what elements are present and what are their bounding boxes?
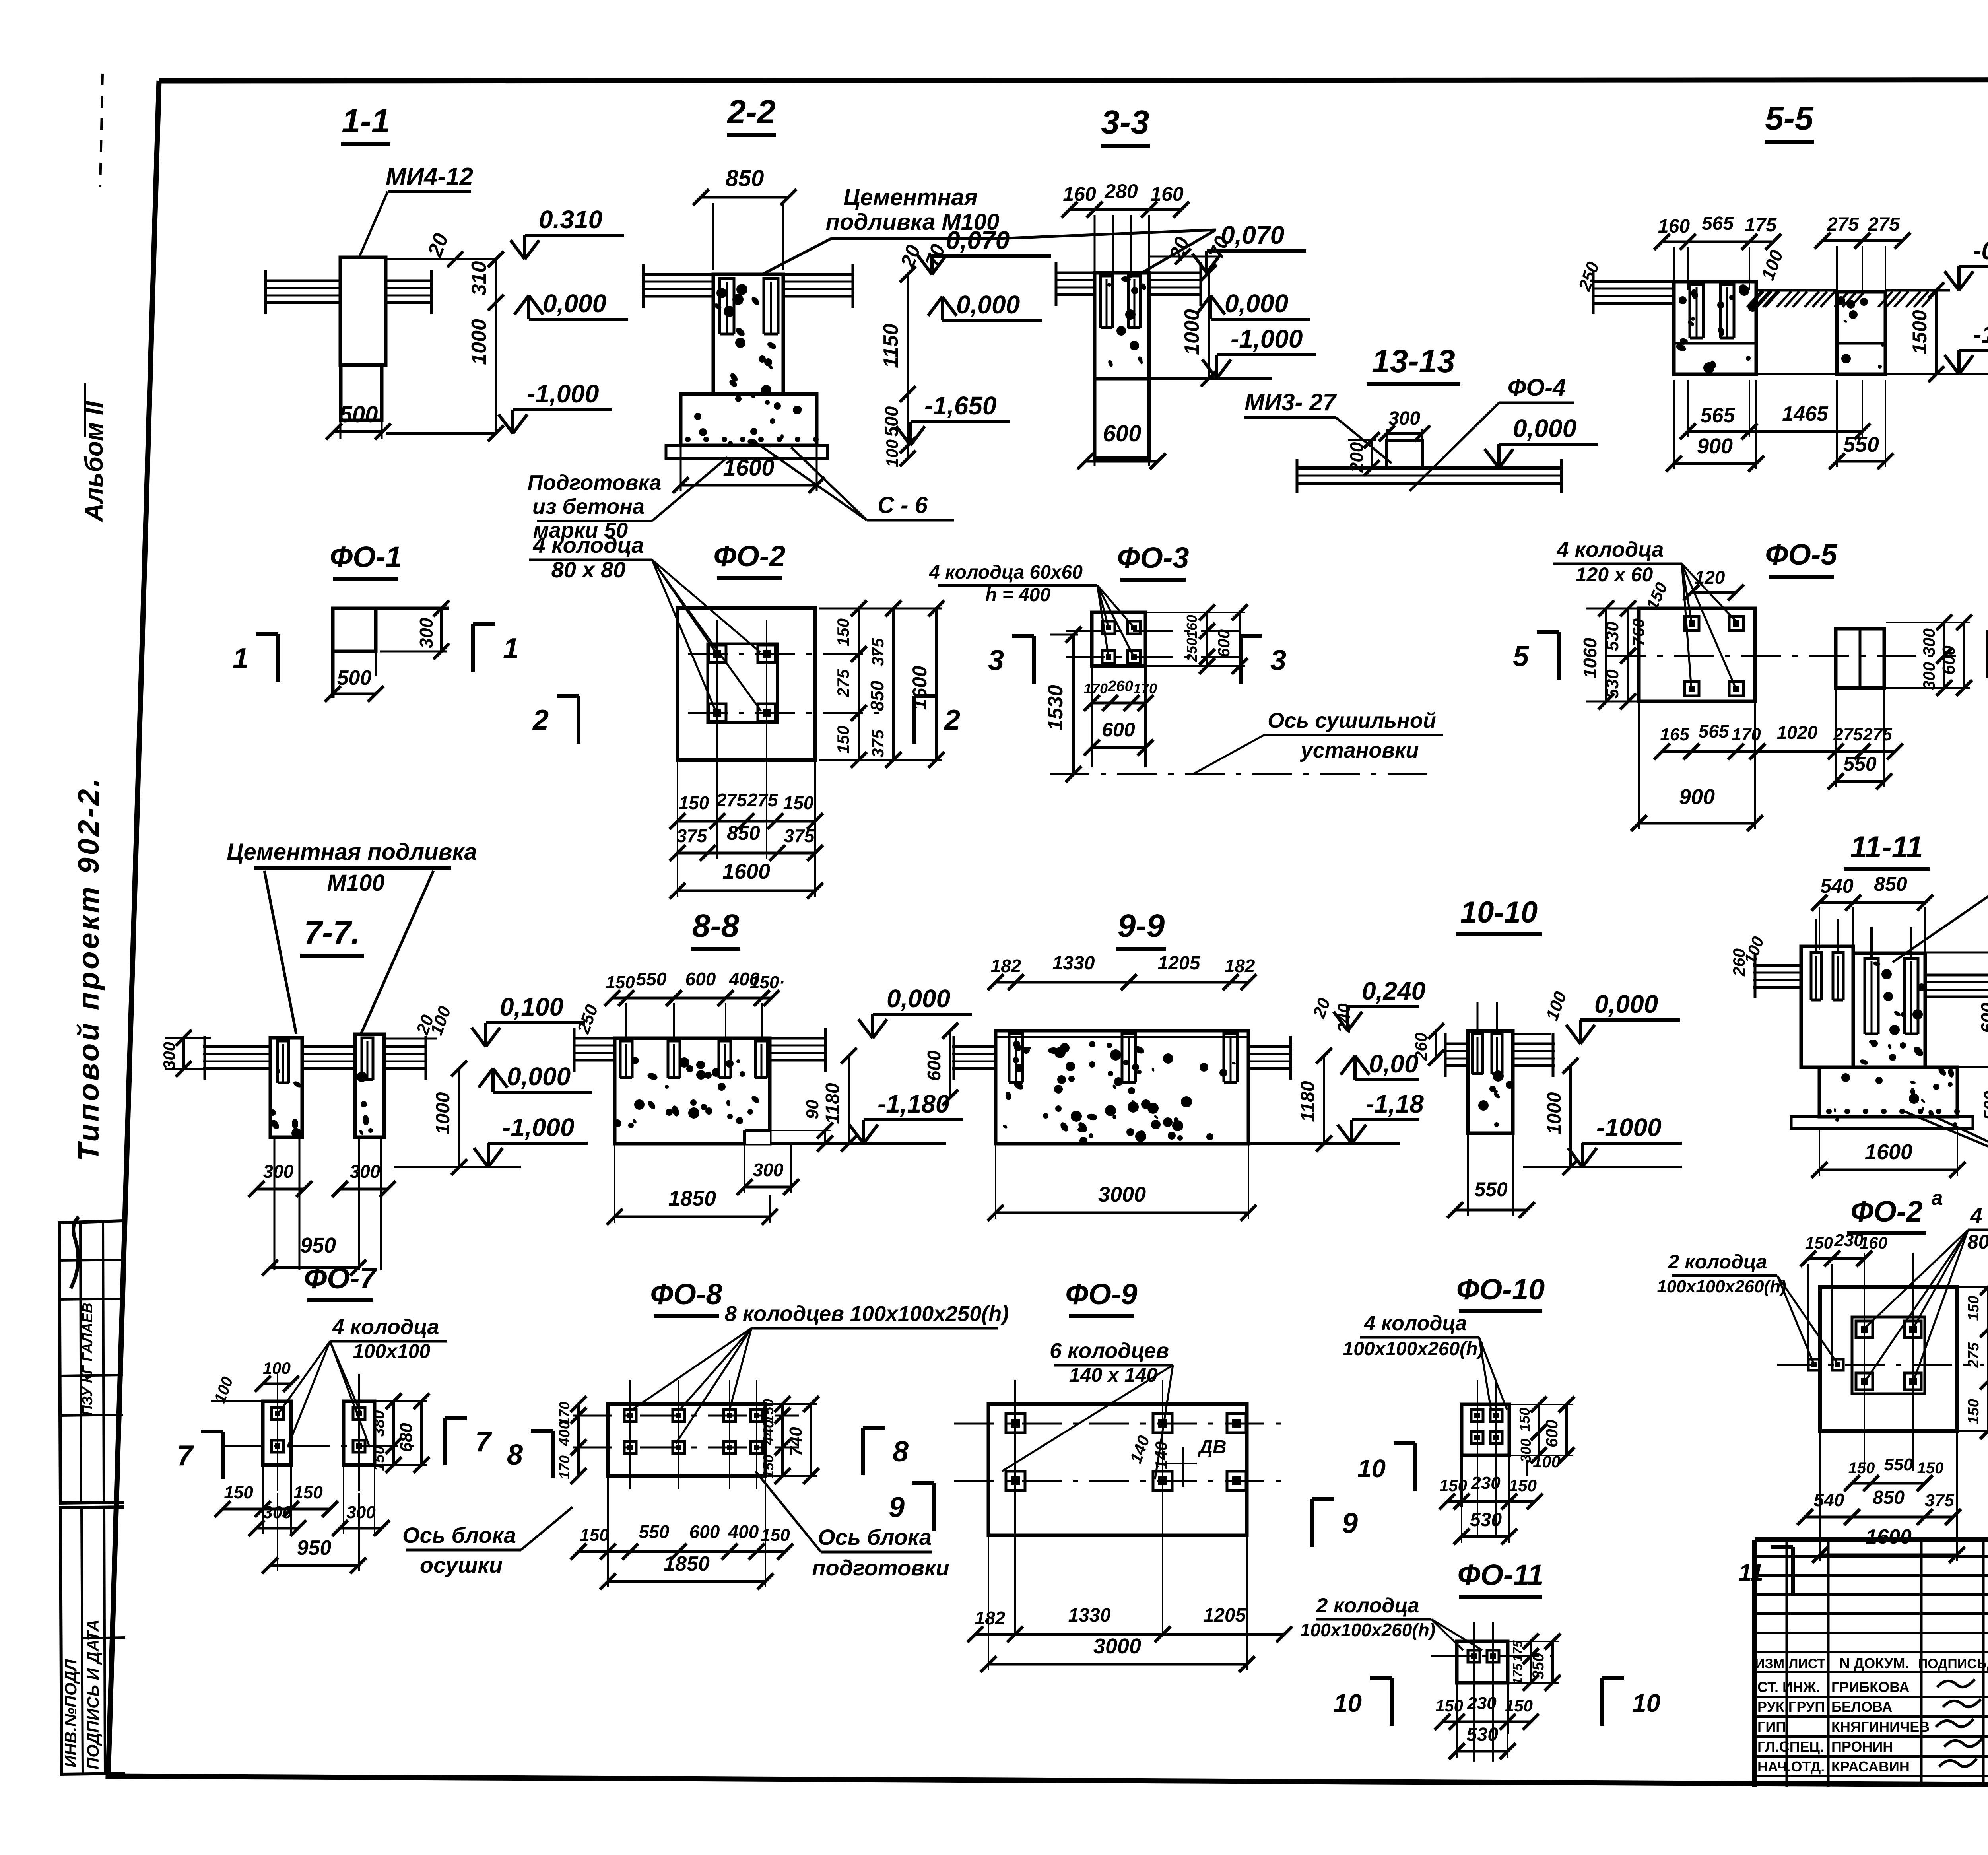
13-13 label FO-4: [1409, 374, 1574, 491]
8-8 bottom line: [770, 1142, 946, 1145]
7-7 level 0,100: [472, 993, 585, 1047]
3-3 floor slab: [1055, 262, 1202, 306]
svg-text:Цементная: Цементная: [843, 185, 978, 210]
9-9 dim 3000: [988, 1145, 1256, 1221]
svg-text:3: 3: [988, 645, 1004, 676]
2-2 level 0,000: [928, 290, 1042, 320]
svg-text:1000: 1000: [468, 319, 491, 365]
svg-text:550: 550: [1843, 753, 1877, 775]
7-7 left dim 300: [160, 1030, 223, 1077]
5-5 dim 100: [1757, 247, 1787, 283]
5-5 top dims right: [1815, 214, 1910, 293]
svg-text:ФО-5: ФО-5: [1765, 538, 1838, 571]
svg-text:1205: 1205: [1158, 953, 1201, 974]
FO-10 axis: [1477, 1380, 1496, 1535]
svg-text:160: 160: [1150, 183, 1184, 205]
svg-text:ФО-3: ФО-3: [1117, 541, 1189, 574]
svg-text:ПРОНИН: ПРОНИН: [1831, 1738, 1893, 1755]
svg-text:Альбом II: Альбом II: [80, 400, 108, 523]
svg-text:310: 310: [468, 261, 491, 296]
svg-text:1: 1: [233, 643, 248, 674]
svg-text:ПОДПИСЬ: ПОДПИСЬ: [1918, 1656, 1987, 1671]
svg-text:ПЗУ КГ ГАЛАЕВ: ПЗУ КГ ГАЛАЕВ: [79, 1303, 95, 1416]
FO-11 secmark 10 right: [1602, 1678, 1660, 1726]
2-2 label cement grout: [761, 185, 1216, 275]
svg-text:740: 740: [786, 1427, 806, 1456]
3-3 pier speckle: [1107, 276, 1147, 367]
svg-text:4 колодца: 4 колодца: [1970, 1204, 1988, 1228]
FO-5 secmark 5 left: [1513, 632, 1559, 680]
svg-text:275: 275: [1965, 1342, 1982, 1368]
11-11 dim 70: [1925, 923, 1988, 960]
svg-text:600: 600: [1542, 1420, 1561, 1447]
svg-text:1000: 1000: [1544, 1092, 1565, 1134]
7-7 floor: [203, 1036, 427, 1080]
svg-text:-1,180: -1,180: [878, 1090, 949, 1118]
svg-text:h = 400: h = 400: [985, 585, 1050, 606]
3-3 vert dim 1000: [1180, 265, 1217, 387]
svg-text:300: 300: [1388, 408, 1420, 429]
svg-text:БЕЛОВА: БЕЛОВА: [1831, 1699, 1892, 1715]
plan FO-5 title: [1765, 538, 1838, 577]
svg-text:100: 100: [1533, 1452, 1561, 1471]
svg-text:275: 275: [1868, 214, 1900, 235]
FO-9 label DV: [1197, 1437, 1226, 1458]
svg-text:375: 375: [868, 638, 887, 666]
10-10 dim 550: [1447, 1135, 1535, 1218]
svg-text:ФО-4: ФО-4: [1508, 374, 1566, 401]
5-5 left pier speckle: [1675, 284, 1757, 373]
svg-text:500: 500: [337, 666, 372, 690]
11-11 rebar dots: [1826, 1109, 1960, 1114]
FO-5 right dims: [1886, 614, 1972, 696]
FO-2 right dim inner: [834, 600, 867, 768]
svg-text:8 колодцев 100x100x250(h): 8 колодцев 100x100x250(h): [725, 1302, 1009, 1326]
8-8 block: [615, 1038, 770, 1144]
svg-text:1180: 1180: [1297, 1081, 1318, 1122]
10-10 level 0,000: [1566, 990, 1680, 1044]
13-13 dim 300: [1379, 408, 1430, 441]
5-5 right pier: [1837, 292, 1885, 374]
FO-7 label wells: [278, 1315, 447, 1447]
FO-7 secmark 7 left: [177, 1432, 223, 1479]
plan FO-7 title: [304, 1262, 377, 1300]
8-8 dim 250: [573, 1002, 602, 1037]
svg-text:600: 600: [1977, 1002, 1988, 1033]
svg-text:0,000: 0,000: [956, 290, 1020, 319]
FO-5 right rect: [1836, 629, 1884, 688]
svg-text:150: 150: [1516, 1408, 1533, 1432]
svg-text:90: 90: [803, 1099, 822, 1119]
svg-text:11: 11: [1739, 1559, 1763, 1586]
9-9 dims 20 240: [1309, 995, 1354, 1033]
11-11 dim 1600: [1811, 1130, 1965, 1178]
section 2-2 title: [726, 93, 776, 135]
svg-text:4 колодца: 4 колодца: [533, 532, 644, 557]
svg-text:-1,000: -1,000: [1231, 324, 1303, 353]
svg-text:100: 100: [883, 439, 901, 467]
FO-3 secmark 3 right: [1241, 636, 1286, 684]
1-1 floor slab: [264, 270, 432, 314]
2-2 dim 1600: [673, 447, 825, 493]
svg-text:300: 300: [1920, 628, 1938, 656]
svg-text:375: 375: [868, 729, 887, 758]
FO-9 bottom dims: [967, 1605, 1292, 1642]
svg-text:1600: 1600: [722, 860, 770, 884]
1-1 dim 20: [386, 230, 497, 267]
FO-8 bottom dims: [571, 1521, 793, 1560]
svg-text:850: 850: [1873, 1487, 1905, 1508]
svg-text:1-1: 1-1: [342, 102, 390, 140]
FO-8 right dims: [760, 1396, 819, 1484]
svg-text:1180: 1180: [822, 1083, 843, 1124]
FO-3 bottom dims: [1084, 678, 1157, 711]
FO-2 bottom dims2: [670, 822, 823, 861]
svg-text:ФО-10: ФО-10: [1456, 1273, 1545, 1306]
FO-9 rect: [988, 1404, 1247, 1535]
fold mark dashes top-left: [100, 74, 103, 187]
svg-text:850: 850: [867, 680, 887, 711]
FO-11 right dims: [1509, 1634, 1561, 1691]
svg-text:13-13: 13-13: [1372, 343, 1455, 379]
svg-text:540: 540: [1814, 1490, 1844, 1510]
svg-text:80x80x600(h): 80x80x600(h): [1967, 1231, 1988, 1253]
FO-9 secmark 9 right: [1312, 1499, 1358, 1547]
FO-5 label wells: [1553, 538, 1736, 689]
10-10 dim 260: [1411, 1023, 1444, 1066]
svg-text:275: 275: [716, 790, 747, 810]
2-2 footing speckle: [694, 392, 802, 447]
2-2 column: [713, 274, 783, 394]
svg-text:120 x 60: 120 x 60: [1576, 563, 1653, 586]
svg-text:10: 10: [1632, 1689, 1660, 1717]
svg-text:ФО-7: ФО-7: [304, 1262, 377, 1295]
svg-text:150: 150: [606, 973, 635, 992]
3-3 anchor slots: [1101, 276, 1140, 328]
svg-text:КРАСАВИН: КРАСАВИН: [1831, 1758, 1910, 1775]
svg-text:565: 565: [1701, 404, 1736, 427]
13-13 label MI3-27: [1244, 389, 1392, 463]
9-9 level 0,00: [1341, 1049, 1419, 1080]
9-9 vert dim 1180: [1297, 1048, 1332, 1152]
5-5 level -1,650: [1945, 320, 1988, 374]
plan FO-2a title: [1847, 1187, 1943, 1233]
FO-10 rect: [1462, 1404, 1509, 1507]
5-5 right pier speckle: [1837, 296, 1885, 369]
7-7 below-pier dims: [248, 1139, 396, 1276]
1-1 dim 500: [326, 402, 391, 439]
8-8 block speckle: [613, 1057, 761, 1128]
plan FO-11 title: [1458, 1558, 1544, 1597]
8-8 level -1,180: [849, 1090, 963, 1144]
svg-text:1850: 1850: [668, 1187, 716, 1210]
plan FO-1 title: [330, 540, 402, 579]
FO-8 secmark 8 left: [507, 1431, 553, 1478]
svg-text:300: 300: [346, 1503, 376, 1522]
5-5 bottom line: [1674, 374, 1988, 375]
FO-2a anchors: [1856, 1321, 1921, 1390]
svg-text:из бетона: из бетона: [532, 495, 645, 519]
svg-text:100x100: 100x100: [353, 1340, 431, 1362]
svg-text:1600: 1600: [909, 666, 931, 710]
FO-2a top dims: [1800, 1231, 1887, 1360]
svg-text:950: 950: [300, 1233, 336, 1257]
svg-text:150: 150: [760, 1399, 777, 1423]
8-8 floor: [573, 1028, 827, 1072]
svg-text:ФО-11: ФО-11: [1458, 1558, 1544, 1591]
FO-8 rect: [608, 1404, 765, 1476]
svg-text:850: 850: [726, 165, 764, 191]
svg-text:375: 375: [1925, 1491, 1954, 1510]
svg-text:Ось сушильной: Ось сушильной: [1268, 709, 1436, 732]
FO-11 axis: [1431, 1622, 1551, 1762]
svg-text:9: 9: [889, 1492, 905, 1523]
svg-text:7-7.: 7-7.: [304, 915, 360, 951]
svg-text:230: 230: [1471, 1473, 1501, 1493]
FO-7 dims 300 300: [248, 1467, 390, 1536]
FO-9 dim 140 small: [1126, 1433, 1197, 1487]
2-2 dim 20 70: [896, 241, 949, 271]
svg-text:182: 182: [1225, 956, 1255, 976]
svg-text:500: 500: [340, 402, 378, 427]
5-5 level -0,150: [1945, 236, 1988, 290]
3-3 pier: [1095, 273, 1149, 458]
FO-7 anchors: [272, 1408, 365, 1452]
svg-text:5-5: 5-5: [1765, 99, 1814, 137]
10-10 bottom line: [1523, 1166, 1682, 1168]
svg-text:ГЛ.СПЕЦ.: ГЛ.СПЕЦ.: [1757, 1738, 1824, 1755]
1-1 bottom line: [386, 432, 497, 435]
13-13 pedestal: [1387, 440, 1422, 468]
3-3 dims 20 70: [1149, 233, 1233, 264]
svg-text:170: 170: [1084, 680, 1108, 697]
svg-text:1850: 1850: [664, 1552, 710, 1575]
FO-10 dim 100: [1527, 1452, 1561, 1476]
svg-text:1: 1: [503, 633, 519, 664]
margin table lower: [60, 1507, 125, 1774]
svg-text:1060: 1060: [1580, 637, 1600, 678]
5-5 vert dim 1500: [1908, 282, 1944, 382]
svg-text:150: 150: [1509, 1476, 1537, 1495]
svg-text:9-9: 9-9: [1118, 908, 1165, 944]
section 5-5 title: [1765, 99, 1814, 142]
svg-text:400: 400: [728, 1521, 759, 1542]
9-9 block: [996, 1031, 1248, 1144]
5-5 left slab: [1574, 259, 1674, 314]
svg-text:1465: 1465: [1782, 402, 1829, 425]
11-11 label cement: [1893, 850, 1988, 962]
9-9 floor: [952, 1036, 1292, 1080]
11-11 left box: [1801, 946, 1853, 1067]
FO-5 anchors: [1685, 616, 1743, 696]
svg-text:150: 150: [834, 726, 852, 754]
svg-text:850: 850: [1874, 873, 1907, 895]
svg-text:ПОДПИСЬ И ДАТА: ПОДПИСЬ И ДАТА: [83, 1620, 102, 1770]
svg-text:установки: установки: [1300, 738, 1419, 762]
FO-5 axis: [1606, 655, 1956, 657]
FO-7 right rect: [344, 1401, 375, 1465]
FO-1 secmark 1 left: [233, 634, 278, 682]
svg-text:ФО-2: ФО-2: [713, 540, 785, 573]
svg-text:150: 150: [580, 1525, 609, 1545]
11-11 vert dim 500: [1980, 1069, 1988, 1136]
svg-text:150·: 150·: [750, 973, 785, 992]
svg-text:2-2: 2-2: [726, 93, 775, 130]
svg-text:550: 550: [1474, 1178, 1508, 1200]
2-2 column speckle: [713, 284, 777, 395]
svg-text:-1,650: -1,650: [1973, 320, 1988, 349]
9-9 left dim 600: [924, 1023, 994, 1105]
FO-2a bottom dims1: [1844, 1455, 1943, 1491]
svg-text:4 колодца: 4 колодца: [1364, 1312, 1467, 1335]
svg-text:7: 7: [475, 1426, 492, 1458]
svg-text:10-10: 10-10: [1460, 895, 1538, 929]
svg-text:7: 7: [177, 1440, 194, 1472]
FO-11 secmark 10 left: [1334, 1678, 1392, 1726]
svg-text:550: 550: [1843, 433, 1879, 456]
3-3 dim 600: [1077, 421, 1166, 469]
svg-text:4 колодца: 4 колодца: [1557, 538, 1664, 561]
svg-text:ИНВ.№ПОДЛ: ИНВ.№ПОДЛ: [61, 1659, 80, 1768]
5-5 bottom dims1: [1680, 380, 1870, 439]
svg-text:500: 500: [1980, 1091, 1988, 1120]
3-3 top dims: [1062, 180, 1189, 278]
svg-text:КНЯГИНИЧЕВ: КНЯГИНИЧЕВ: [1831, 1719, 1930, 1735]
svg-text:2: 2: [532, 704, 549, 736]
FO-1 corner: [333, 608, 449, 698]
FO-2 secmark 2 right: [914, 696, 960, 744]
2-2 rebar dots: [685, 437, 819, 442]
FO-2 axis v: [717, 620, 767, 859]
svg-text:140: 140: [1152, 1441, 1171, 1469]
FO-11 bottom dims: [1435, 1694, 1539, 1730]
svg-text:170: 170: [1732, 725, 1761, 744]
svg-text:600: 600: [1214, 629, 1233, 657]
svg-text:Цементная подливка: Цементная подливка: [227, 839, 477, 865]
svg-text:НАЧ.ОТД.: НАЧ.ОТД.: [1757, 1758, 1825, 1775]
5-5 left pier: [1674, 282, 1756, 374]
svg-text:ФО-8: ФО-8: [650, 1278, 722, 1311]
FO-2a bottom dims2: [1797, 1487, 1961, 1525]
2-2 prep strip: [666, 444, 827, 459]
svg-text:11-11: 11-11: [1850, 830, 1923, 864]
FO-8 label wells: [632, 1302, 1009, 1443]
FO-2a right dims inner: [1965, 1279, 1988, 1439]
svg-text:170: 170: [1133, 680, 1157, 697]
7-7 leaders: [264, 871, 433, 1034]
svg-text:0,000: 0,000: [1225, 289, 1288, 318]
section 7-7 title: [300, 915, 364, 956]
FO-8 left dims: [556, 1396, 586, 1484]
7-7 label cement: [227, 839, 477, 896]
8-8 anchor slots: [620, 1041, 767, 1078]
svg-text:150: 150: [679, 793, 709, 813]
FO-9 label wells: [1002, 1339, 1173, 1479]
11-11 anchor slots: [1811, 919, 1918, 1034]
svg-text:а: а: [1932, 1187, 1943, 1210]
plan FO-3 title: [1117, 541, 1189, 580]
svg-text:300: 300: [263, 1161, 294, 1182]
9-9 block speckle: [1002, 1041, 1236, 1145]
svg-text:900: 900: [1679, 785, 1715, 809]
svg-text:250: 250: [1184, 638, 1200, 662]
11-11 column: [1853, 953, 1925, 1067]
svg-text:150: 150: [1965, 1296, 1982, 1321]
5-5 ground hatch: [1747, 291, 1936, 307]
11-11 left slab: [1730, 934, 1801, 998]
8-8 top dims: [604, 969, 785, 1006]
svg-text:280: 280: [1104, 180, 1138, 202]
FO-3 secmark 3 left: [988, 636, 1034, 684]
svg-text:10: 10: [1334, 1689, 1362, 1717]
svg-text:3000: 3000: [1093, 1634, 1141, 1658]
svg-text:950: 950: [297, 1536, 332, 1560]
section 13-13 title: [1367, 343, 1460, 384]
svg-text:-1,000: -1,000: [502, 1113, 574, 1142]
3-3 level 0,000: [1196, 289, 1310, 319]
svg-text:150: 150: [1805, 1233, 1833, 1252]
FO-9 dim 3000: [980, 1537, 1255, 1672]
8-8 dim 300: [737, 1144, 799, 1195]
svg-text:0,070: 0,070: [1221, 221, 1284, 249]
svg-text:1000: 1000: [1180, 309, 1204, 355]
10-10 dim 100: [1513, 989, 1571, 1034]
svg-text:1600: 1600: [1865, 1140, 1912, 1164]
svg-text:275: 275: [834, 669, 852, 697]
svg-text:300: 300: [753, 1160, 784, 1180]
svg-text:ГИП: ГИП: [1757, 1719, 1786, 1735]
FO-2a axis: [1777, 1253, 1984, 1471]
FO-8 secmark 8 right: [863, 1428, 909, 1475]
2-2 vert dim: [879, 266, 916, 467]
FO-3 right dims: [1147, 604, 1248, 674]
section 11-11 title: [1844, 830, 1930, 869]
FO-10 right dims: [1511, 1397, 1574, 1463]
svg-text:275: 275: [1862, 725, 1892, 744]
FO-7 dim 950: [262, 1493, 366, 1573]
9-9 bottom line: [1248, 1142, 1400, 1145]
svg-text:4 колодца: 4 колодца: [332, 1315, 439, 1339]
2-2 dim 850: [693, 165, 796, 270]
svg-text:10: 10: [1357, 1454, 1386, 1483]
FO-2 bottom dim 1600: [670, 761, 823, 899]
8-8 level 0,000: [858, 984, 972, 1038]
svg-text:300: 300: [416, 618, 437, 648]
7-7 level -1,000: [474, 1113, 588, 1167]
svg-text:Типовой проект 902-2.: Типовой проект 902-2.: [72, 776, 105, 1161]
FO-7 secmark 7 right: [445, 1418, 492, 1465]
svg-text:400: 400: [556, 1421, 573, 1446]
FO-2 inner square: [708, 644, 777, 723]
svg-text:160: 160: [1063, 183, 1096, 205]
svg-text:РУК.ГРУП: РУК.ГРУП: [1757, 1699, 1825, 1715]
FO-11 label wells: [1300, 1594, 1482, 1650]
FO-10 dim 530: [1454, 1504, 1517, 1544]
8-8 dim 1850: [607, 1145, 778, 1225]
section 9-9 title: [1116, 908, 1166, 949]
7-7 bottom line: [394, 1166, 521, 1168]
FO-3 dim 600: [1084, 704, 1153, 756]
10-10 floor: [1444, 1033, 1555, 1077]
svg-text:150: 150: [760, 1455, 777, 1478]
FO-2 bottom dims1: [670, 790, 823, 829]
3-3 level -1,000: [1202, 324, 1316, 379]
svg-text:C - 6: C - 6: [878, 492, 928, 518]
margin table upper: [59, 1217, 124, 1503]
svg-text:375: 375: [677, 826, 708, 846]
7-7 dims 20 100: [384, 1004, 455, 1039]
svg-text:ЛИСТ: ЛИСТ: [1789, 1656, 1826, 1671]
